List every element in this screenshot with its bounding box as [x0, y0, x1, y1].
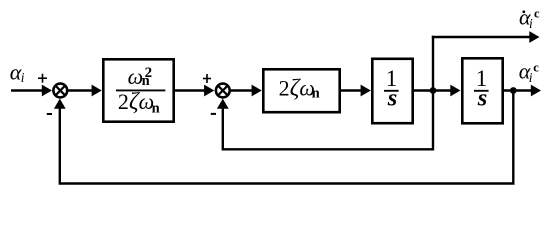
svg-text:i: i [529, 70, 533, 85]
block G4: integrator 1/s [462, 58, 502, 123]
output label alpha_i^c [519, 59, 540, 86]
node N2 output junction dot [510, 87, 517, 94]
wire input to summing junction S1 [11, 85, 52, 97]
svg-text:2ζω: 2ζω [118, 89, 154, 115]
wire S1 to block G1 [69, 85, 102, 97]
wire G3 to block G4 [414, 85, 461, 97]
plus sign at S2 [203, 74, 211, 83]
svg-text:i: i [529, 16, 533, 31]
output label alpha-dot_i^c [519, 5, 540, 32]
minus sign at S2 [211, 113, 216, 115]
wire G4 to output [504, 85, 542, 97]
node N1 junction dot between integrators [430, 87, 437, 94]
value label G3 fraction bar [384, 90, 399, 92]
value label G1 numerator omega_n^2 [128, 64, 153, 89]
plus sign at S1 [38, 74, 47, 83]
value label G4 fraction bar [474, 90, 489, 92]
wire outer feedback from N2 down and left [60, 91, 514, 184]
wire G2 to block G3 [341, 85, 371, 97]
wire inner feedback from N1 down and left [223, 91, 433, 150]
svg-text:c: c [533, 61, 539, 75]
summing junction S1 [53, 84, 67, 98]
block G1: omega_n^2 / (2 zeta omega_n) [103, 59, 173, 121]
block G2: 2 zeta omega_n [263, 69, 339, 112]
value label G1 fraction bar [116, 89, 165, 91]
value label G2 text 2 zeta omega_n [279, 75, 320, 101]
summing junction S2 [216, 84, 230, 98]
svg-text:i: i [21, 70, 25, 85]
wire S2 to block G2 [231, 85, 262, 97]
input label alpha_i [10, 59, 25, 85]
svg-text:n: n [152, 101, 160, 117]
svg-text:2: 2 [145, 65, 153, 81]
svg-text:2ζω: 2ζω [279, 75, 315, 101]
wire top branch to alpha-dot output [432, 31, 540, 43]
svg-text:c: c [534, 7, 540, 21]
arrow inner feedback into S2 [217, 99, 229, 109]
svg-text:n: n [312, 85, 320, 101]
minus sign at S1 [47, 113, 52, 115]
wire branch N1 up [432, 36, 434, 92]
value label G1 denominator 2 zeta omega_n [118, 89, 160, 117]
svg-text:s: s [387, 85, 398, 112]
block G3: integrator 1/s [372, 59, 412, 123]
svg-text:s: s [477, 85, 488, 112]
wire G1 to summing junction S2 [175, 85, 214, 97]
arrow outer feedback into S1 [54, 99, 66, 109]
